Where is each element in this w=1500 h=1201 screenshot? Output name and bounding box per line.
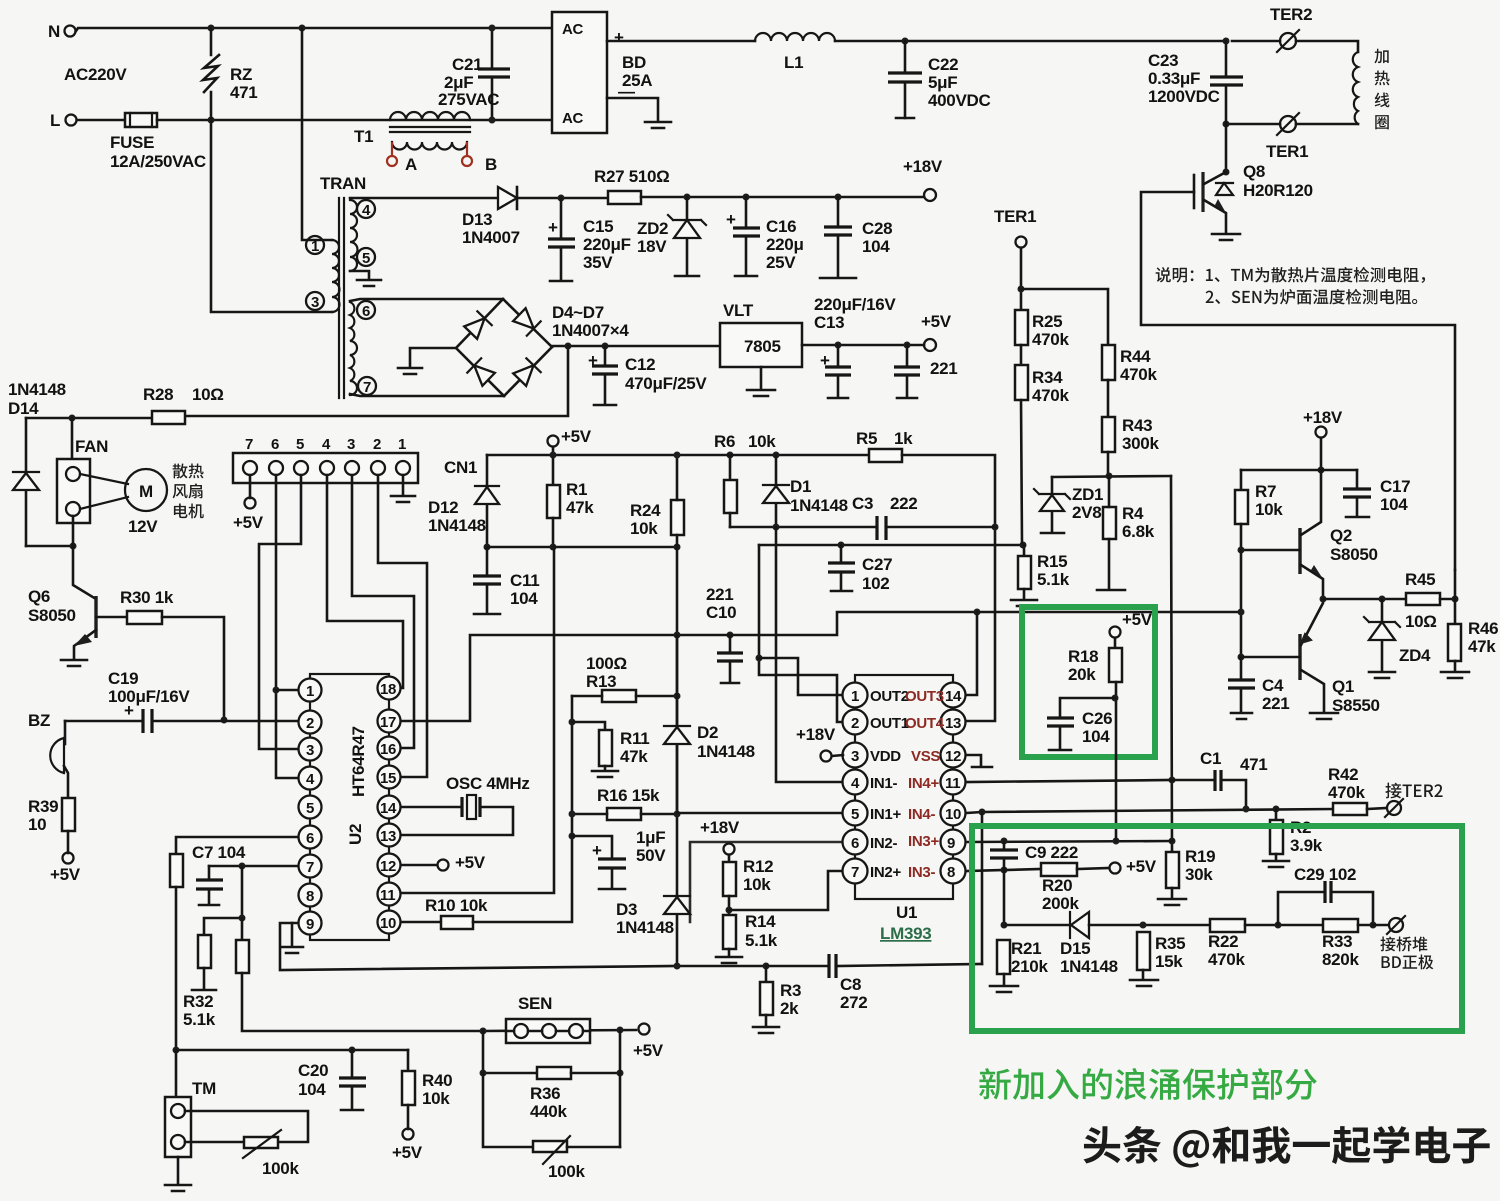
wire coil bottom to TER1 (1296, 123, 1358, 126)
svg-text:1N4148: 1N4148 (790, 496, 848, 515)
svg-text:C23: C23 (1148, 51, 1178, 70)
resistor R18 20k (1109, 648, 1122, 682)
svg-text:VDD: VDD (870, 748, 901, 765)
wire L rail (157, 119, 552, 122)
wire divider junction row (1052, 476, 1171, 477)
wire U1 pin14 up to drive line (966, 612, 977, 695)
svg-text:D13: D13 (462, 210, 492, 229)
capacitor 221 (904, 342, 911, 349)
node circled 7 (358, 377, 376, 395)
svg-text:47k: 47k (620, 747, 648, 766)
svg-text:AC: AC (562, 110, 584, 127)
svg-text:ZD2: ZD2 (637, 219, 668, 238)
svg-text:13: 13 (945, 715, 961, 732)
resistor R22 470k (1210, 919, 1245, 932)
wire vertical A to U2 pin11 (401, 547, 554, 893)
svg-text:R4: R4 (1122, 504, 1144, 523)
svg-text:R7: R7 (1255, 482, 1276, 501)
wire winding5 to ground (350, 271, 369, 278)
svg-text:10k: 10k (422, 1089, 450, 1108)
svg-text:R42: R42 (1328, 765, 1358, 784)
resistor R45 10ohm (1406, 593, 1440, 605)
wire U2 pin17 line (401, 612, 1242, 721)
svg-text:OUT2: OUT2 (870, 688, 909, 705)
wire U1 pin9 net IN3+ (966, 841, 1172, 842)
green highlight box 1 (1022, 607, 1155, 757)
wire emitter junction row (1320, 596, 1327, 603)
capacitor C21 2uF 275VAC (491, 28, 494, 120)
wire N rail down to TRAN primary (302, 28, 332, 240)
svg-text:1μF: 1μF (636, 828, 665, 847)
svg-text:TER2: TER2 (1270, 5, 1312, 24)
wire bridge junction down to bottom rail (184, 346, 568, 416)
wire fan to Q6 collector (73, 546, 96, 599)
node +5V SEN (639, 1024, 650, 1035)
diode D2 1N4148 (676, 635, 679, 813)
svg-text:R32: R32 (183, 992, 213, 1011)
connector CN1 (233, 453, 418, 483)
svg-text:C3: C3 (852, 494, 873, 513)
svg-text:470k: 470k (1032, 386, 1069, 405)
svg-text:400VDC: 400VDC (928, 91, 990, 110)
svg-text:C29 102: C29 102 (1294, 865, 1356, 884)
svg-text:1k: 1k (894, 429, 913, 448)
node +5V below R40 (403, 1129, 414, 1140)
svg-text:6: 6 (271, 436, 279, 453)
svg-text:+5V: +5V (921, 312, 952, 331)
wire U2 pin9 ground rail (280, 923, 677, 970)
svg-text:221: 221 (706, 585, 733, 604)
svg-text:470k: 470k (1328, 783, 1365, 802)
svg-text:R45: R45 (1405, 570, 1435, 589)
svg-text:4: 4 (362, 202, 371, 219)
wire winding4 to D13 (350, 197, 496, 200)
wire C27 R15 line (759, 544, 1023, 547)
svg-text:10k: 10k (748, 432, 776, 451)
svg-text:C17: C17 (1380, 477, 1410, 496)
svg-text:104: 104 (1380, 495, 1408, 514)
resistor R4 6.8k (1103, 507, 1116, 539)
svg-text:7: 7 (245, 436, 253, 453)
svg-text:R3: R3 (780, 981, 801, 1000)
svg-text:18V: 18V (637, 237, 667, 256)
svg-text:ZD1: ZD1 (1072, 485, 1103, 504)
svg-text:15k: 15k (1155, 952, 1183, 971)
resistor R3 2k (765, 966, 768, 982)
svg-text:200k: 200k (1042, 894, 1079, 913)
svg-text:471: 471 (230, 83, 257, 102)
resistor R21 210k (997, 940, 1010, 974)
resistor R46 47k (1448, 624, 1461, 661)
svg-text:R33: R33 (1322, 932, 1352, 951)
svg-text:IN1-: IN1- (870, 775, 897, 792)
wire U1 pin10 net IN4- (966, 809, 1333, 813)
svg-text:1N4148: 1N4148 (616, 918, 674, 937)
svg-text:FUSE: FUSE (110, 133, 154, 152)
svg-text:9: 9 (947, 835, 955, 852)
svg-text:IN2+: IN2+ (870, 864, 901, 881)
svg-text:FAN: FAN (75, 437, 108, 456)
wire bridge left to ground (410, 348, 456, 366)
svg-text:+5V: +5V (50, 865, 81, 884)
svg-text:T1: T1 (354, 127, 373, 146)
winding secondary 4-5 (350, 200, 358, 271)
wire top-left net R28 (26, 417, 152, 420)
diode D3 1N4148 (664, 897, 690, 914)
svg-text:221: 221 (930, 359, 957, 378)
IC U2 HT64R47 (310, 674, 389, 940)
svg-text:R1: R1 (566, 480, 587, 499)
svg-text:2: 2 (373, 436, 381, 453)
svg-text:C27: C27 (862, 555, 892, 574)
svg-text:C15: C15 (583, 217, 613, 236)
svg-text:5μF: 5μF (928, 73, 957, 92)
diode D12 1N4148 (486, 455, 489, 547)
wire R30 to C19 line (162, 617, 224, 720)
zener ZD4 (1381, 599, 1384, 670)
svg-text:5.1k: 5.1k (1037, 570, 1070, 589)
svg-text:100Ω: 100Ω (586, 654, 627, 673)
svg-text:12A/250VAC: 12A/250VAC (110, 152, 206, 171)
resistor R24 10k (671, 500, 684, 535)
svg-text:R25: R25 (1032, 312, 1062, 331)
svg-text:5.1k: 5.1k (745, 931, 778, 950)
regulator VLT 7805 (720, 323, 802, 367)
junction C23 top (1223, 38, 1230, 45)
capacitor C17 104 (1356, 470, 1359, 515)
svg-text:+5V: +5V (1122, 610, 1153, 629)
svg-text:5: 5 (306, 800, 314, 817)
svg-text:210k: 210k (1011, 957, 1048, 976)
svg-text:C1: C1 (1200, 749, 1221, 768)
svg-text:AC220V: AC220V (64, 65, 127, 84)
svg-text:10k: 10k (630, 519, 658, 538)
resistor R10 10k (401, 921, 441, 924)
svg-text:C10: C10 (706, 603, 736, 622)
resistor R12 10k (723, 862, 736, 896)
svg-text:C16: C16 (766, 217, 796, 236)
resistor R27 510ohm (608, 191, 641, 204)
svg-text:H20R120: H20R120 (1243, 181, 1313, 200)
svg-text:R27 510Ω: R27 510Ω (594, 167, 670, 186)
svg-text:3: 3 (306, 742, 314, 759)
svg-text:R24: R24 (630, 501, 661, 520)
svg-text:R12: R12 (743, 857, 773, 876)
svg-text:25V: 25V (766, 253, 796, 272)
svg-text:440k: 440k (530, 1102, 567, 1121)
svg-text:20k: 20k (1068, 665, 1096, 684)
resistor R35 15k (1137, 932, 1150, 970)
fuse FUSE 12A/250VAC (125, 113, 157, 127)
svg-text:2V8: 2V8 (1072, 503, 1101, 522)
svg-text:12: 12 (380, 858, 396, 875)
wire junction down to R32 (204, 866, 242, 935)
resistor R11 47k (572, 722, 605, 730)
svg-text:+: + (726, 210, 736, 229)
svg-text:C7 104: C7 104 (192, 843, 246, 862)
svg-text:S8050: S8050 (1330, 545, 1378, 564)
svg-text:3: 3 (851, 748, 859, 765)
svg-text:U1: U1 (896, 903, 917, 922)
svg-text:+: + (592, 841, 602, 860)
svg-text:M: M (139, 482, 153, 501)
svg-text:104: 104 (298, 1080, 326, 1099)
filter transformer T1 (390, 112, 470, 120)
svg-text:220μF: 220μF (583, 235, 631, 254)
wire R down to SEN line (242, 973, 483, 1031)
resistor R15 5.1k (1023, 545, 1026, 556)
svg-text:104: 104 (862, 237, 890, 256)
svg-text:C4: C4 (1262, 676, 1284, 695)
svg-text:R40: R40 (422, 1071, 452, 1090)
node +5V terminal R20 (1110, 863, 1121, 874)
svg-text:5: 5 (296, 436, 304, 453)
resistor R43 300k (1102, 417, 1115, 452)
svg-text:470k: 470k (1032, 330, 1069, 349)
transistor Q2 S8050 (1298, 528, 1301, 574)
wire L junction down to TRAN primary bottom (211, 120, 332, 312)
wire Q8 gate drive (1141, 192, 1455, 570)
node circled 1 (306, 236, 324, 254)
capacitor C16 220u 25V (743, 194, 750, 201)
svg-text:OUT1: OUT1 (870, 715, 909, 732)
svg-text:LM393: LM393 (880, 924, 931, 943)
ground U2 pin9 (281, 947, 303, 953)
svg-text:D14: D14 (8, 399, 39, 418)
ground BD minus (645, 122, 671, 128)
svg-text:+5V: +5V (561, 427, 592, 446)
wire TM rail (176, 1049, 408, 1052)
svg-text:6.8k: 6.8k (1122, 522, 1155, 541)
transistor Q6 S8050 (94, 596, 97, 638)
wire R5 right down to U1 pin13 (902, 455, 995, 721)
svg-text:VSS: VSS (911, 748, 940, 765)
ground 7805 (760, 367, 763, 388)
svg-text:30k: 30k (1185, 865, 1213, 884)
svg-text:7: 7 (363, 379, 371, 396)
svg-text:IN3-: IN3- (908, 864, 935, 881)
capacitor C9 222 (1003, 841, 1006, 870)
resistor R36 440k (483, 1031, 537, 1073)
resistor R34 470k (1015, 365, 1028, 400)
wire SEN rail (483, 1030, 636, 1031)
svg-text:U2: U2 (346, 824, 365, 845)
resistor R25 470k (1015, 310, 1028, 345)
svg-text:A: A (405, 155, 417, 174)
svg-text:L1: L1 (784, 53, 803, 72)
svg-text:220μ: 220μ (766, 235, 804, 254)
wire comparator output line C8 (677, 964, 982, 966)
svg-text:C20: C20 (298, 1061, 328, 1080)
svg-text:D12: D12 (428, 498, 458, 517)
svg-text:102: 102 (862, 574, 889, 593)
svg-text:471: 471 (1240, 755, 1267, 774)
svg-text:1N4148: 1N4148 (1060, 957, 1118, 976)
svg-text:+: + (124, 701, 134, 720)
svg-text:275VAC: 275VAC (438, 90, 499, 109)
diode D14 (25, 418, 28, 546)
svg-text:+5V: +5V (633, 1041, 664, 1060)
svg-text:10: 10 (380, 915, 396, 932)
winding primary 1-3 (332, 240, 340, 312)
svg-text:ZD4: ZD4 (1399, 646, 1431, 665)
label fan chinese (173, 463, 204, 478)
svg-text:+: + (548, 218, 558, 237)
svg-text:47k: 47k (566, 498, 594, 517)
wire base vertical (1240, 550, 1243, 657)
wire +18V rail (641, 196, 924, 199)
svg-text:2: 2 (851, 715, 859, 732)
svg-text:9: 9 (306, 916, 314, 933)
capacitor 1uF 50V electrolytic (569, 833, 576, 840)
svg-text:104: 104 (510, 589, 538, 608)
svg-text:TRAN: TRAN (320, 174, 366, 193)
transistor Q1 S8550 (1298, 634, 1301, 680)
svg-text:2: 2 (306, 715, 314, 732)
wire C23 down to Q8 collector (1225, 124, 1228, 172)
svg-text:1N4148: 1N4148 (8, 380, 66, 399)
wire U1 pin8 net IN3- (966, 870, 1004, 871)
svg-text:C12: C12 (625, 355, 655, 374)
capacitor C28 104 (835, 194, 842, 201)
wire R45 to R46 vertical (1454, 570, 1457, 624)
capacitor C26 104 (1060, 698, 1115, 748)
wire CN1 pin4 to U2 pin18 (327, 475, 403, 688)
svg-text:Q6: Q6 (28, 587, 50, 606)
svg-text:10: 10 (28, 815, 46, 834)
svg-text:D2: D2 (697, 723, 718, 742)
svg-text:8: 8 (306, 888, 314, 905)
wire D13 to R27 (517, 197, 608, 200)
svg-text:R28: R28 (143, 385, 173, 404)
wire Q2 base (1241, 549, 1300, 552)
wire comparator reference line (1003, 870, 1006, 925)
bridge rectifier D4~D7 1N4007x4 (456, 299, 552, 396)
wire C11 R1 junction line (487, 546, 677, 549)
svg-text:HT64R47: HT64R47 (349, 726, 368, 797)
svg-text:TER1: TER1 (1266, 142, 1308, 161)
svg-text:+5V: +5V (1126, 857, 1157, 876)
svg-text:35V: 35V (583, 253, 613, 272)
svg-text:6: 6 (851, 835, 859, 852)
svg-text:R19: R19 (1185, 847, 1215, 866)
terminal TER1 (1280, 116, 1296, 132)
svg-text:104: 104 (1082, 727, 1110, 746)
svg-text:12: 12 (945, 748, 961, 765)
svg-text:C8: C8 (840, 975, 861, 994)
svg-text:1N4148: 1N4148 (697, 742, 755, 761)
svg-text:3: 3 (311, 294, 319, 311)
svg-text:OUT3: OUT3 (905, 688, 944, 705)
wire D1 junction down to U1 pin4 (776, 527, 843, 782)
junction on L rail at RZ (208, 117, 215, 124)
wire DC bus rail (835, 40, 1226, 43)
svg-text:221: 221 (1262, 694, 1289, 713)
diode D1 1N4148 (773, 452, 780, 459)
svg-text:5.1k: 5.1k (183, 1010, 216, 1029)
svg-text:11: 11 (945, 775, 960, 792)
svg-text:OSC 4MHz: OSC 4MHz (446, 774, 530, 793)
node circled 3 (306, 292, 324, 310)
resistor R20 200k (1004, 869, 1041, 870)
wire R16 to U1 pin5 (677, 812, 843, 815)
ground Q1 collector (1310, 713, 1338, 719)
zener ZD1 2V8 (1051, 477, 1054, 531)
svg-text:IN3+: IN3+ (908, 833, 939, 850)
svg-text:3: 3 (347, 436, 355, 453)
svg-text:IN4+: IN4+ (908, 775, 939, 792)
wire U2 pin7 line (209, 865, 298, 868)
svg-text:B: B (485, 155, 497, 174)
varistor RZ 471 (210, 28, 213, 120)
resistor R33 820k (1323, 919, 1358, 932)
svg-text:C9 222: C9 222 (1025, 843, 1078, 862)
svg-text:1N4007: 1N4007 (462, 228, 520, 247)
wire branch to R44 (1021, 289, 1108, 345)
svg-text:100k: 100k (262, 1159, 299, 1178)
wire L to fuse (77, 119, 125, 122)
resistor R7 10k (1240, 470, 1243, 490)
svg-text:220μF/16V: 220μF/16V (814, 295, 896, 314)
bridge rectifier BD 25A box (552, 12, 607, 133)
svg-text:R14: R14 (745, 912, 776, 931)
svg-text:10Ω: 10Ω (1405, 612, 1437, 631)
svg-text:D4~D7: D4~D7 (552, 303, 604, 322)
svg-text:18: 18 (380, 681, 396, 698)
svg-text:6: 6 (362, 303, 370, 320)
svg-text:IN4-: IN4- (908, 806, 935, 823)
wire OUT2 OUT1 drive (759, 545, 843, 722)
wire U1 pin6 net (690, 842, 843, 922)
svg-text:R43: R43 (1122, 416, 1152, 435)
svg-text:D3: D3 (616, 900, 637, 919)
capacitor C11 104 (484, 544, 491, 551)
wire U2 pin12 +5V (401, 864, 437, 867)
node circled 4 (357, 200, 375, 218)
svg-text:Q1: Q1 (1332, 677, 1354, 696)
wire TM loop (185, 1111, 308, 1142)
resistor R32 5.1k (198, 935, 211, 968)
svg-text:10k: 10k (1255, 500, 1283, 519)
node +5V terminal (552, 447, 555, 455)
terminal jie qiaodui BD (1373, 924, 1388, 927)
resistor R44 470k (1102, 345, 1115, 380)
crystal OSC (401, 807, 513, 835)
resistor R42 470k (1243, 806, 1250, 813)
svg-text:47k: 47k (1468, 637, 1496, 656)
capacitor C7 (208, 866, 211, 903)
svg-text:C19: C19 (108, 669, 138, 688)
svg-text:R16 15k: R16 15k (597, 786, 660, 805)
svg-text:470k: 470k (1120, 365, 1157, 384)
heating coil (1353, 52, 1358, 124)
ground winding 5 (357, 280, 381, 286)
ground Q6 emitter (61, 660, 87, 666)
svg-text:Q2: Q2 (1330, 526, 1352, 545)
svg-text:R30 1k: R30 1k (120, 588, 174, 607)
wire R12 junction to U1 pin7 (729, 871, 843, 910)
svg-text:R13: R13 (586, 672, 616, 691)
node +18V terminal (924, 189, 936, 201)
diode D13 1N4007 (498, 187, 517, 209)
junction on N rail wire down (299, 25, 306, 32)
node L terminal (66, 115, 77, 126)
ground bridge left (398, 368, 422, 374)
resistor R2 3.9k (1275, 809, 1278, 820)
svg-text:R39: R39 (28, 797, 58, 816)
svg-text:1: 1 (851, 688, 859, 705)
wire 7805 output (802, 344, 924, 347)
